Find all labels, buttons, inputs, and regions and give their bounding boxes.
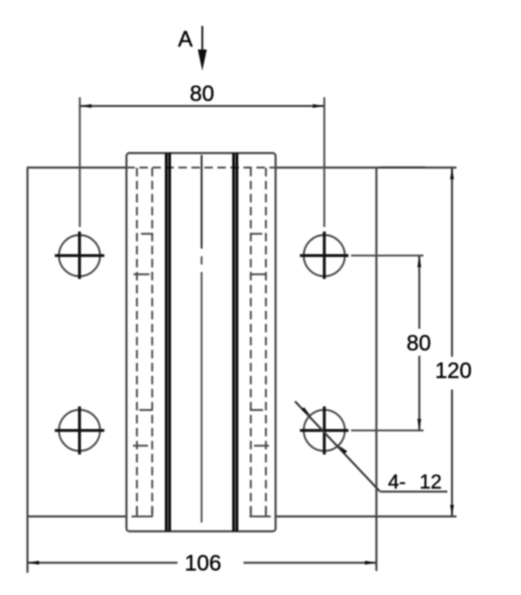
hidden bottom feet left — [132, 515, 153, 517]
dimension 120: arrowheads — [450, 168, 454, 517]
hole bottom-left circle — [59, 410, 100, 451]
dimension 80 top: arrowheads — [80, 104, 324, 108]
dimension 80 right: extension lines — [351, 256, 424, 431]
dimension 80 top: extension lines — [80, 97, 324, 227]
dimension 120: dimension line — [451, 168, 453, 517]
rail center line (dash-dot) — [201, 256, 203, 522]
leader 4-d12: arrowheads — [301, 407, 347, 454]
hidden plate top edge through rail — [126, 167, 276, 169]
hole bottom-left crosshair — [55, 406, 105, 454]
plate left edge + 106 extension — [26, 168, 28, 573]
svg-text:80: 80 — [407, 330, 431, 355]
svg-text:106: 106 — [185, 551, 222, 576]
dimension 106: dimension line — [28, 562, 377, 564]
rail hidden slot right dashed line 2 — [265, 168, 267, 516]
hole bottom-right circle — [304, 410, 345, 451]
hole bottom-right crosshair — [300, 406, 349, 454]
section arrow A — [198, 26, 207, 71]
rail center line upper segment (section cut) — [201, 155, 203, 249]
plate top edge right segment + 120 extension — [276, 167, 457, 169]
hole top-right circle — [304, 235, 345, 276]
dimension 106: arrowheads — [28, 561, 377, 565]
rail hidden slot left dashed line 1 — [136, 168, 138, 516]
rail hidden slot left dashed line 2 — [151, 168, 153, 516]
svg-text:80: 80 — [190, 81, 214, 106]
rail hidden slot right dashed line 1 — [250, 168, 252, 516]
rail thick rib line left pair — [166, 153, 169, 531]
rail block outline — [126, 153, 275, 531]
plate bottom edge right segment + 120 extension — [276, 515, 457, 517]
svg-text:12: 12 — [420, 471, 442, 493]
dimension 80 top: dimension line — [80, 105, 324, 107]
rail thick rib line right pair — [234, 153, 237, 531]
dimension 120 top extension overdraw — [380, 166, 426, 168]
leader 4-d12: diagonal line — [295, 401, 380, 491]
dimension 80 right: dimension line — [418, 256, 420, 431]
plate right edge + 106 extension — [375, 168, 377, 571]
hole top-left crosshair — [55, 232, 105, 280]
rail slot tick marks — [132, 234, 271, 517]
svg-text:120: 120 — [435, 358, 472, 383]
dimension 80 right: arrowheads — [417, 256, 421, 431]
plate bottom edge left segment — [27, 515, 127, 517]
svg-text:A: A — [178, 27, 193, 52]
leader 4-d12: underline — [380, 491, 448, 493]
hole top-left circle — [59, 235, 100, 276]
plate top edge left segment — [27, 167, 127, 169]
plate outline — [27, 168, 457, 573]
svg-text:4-: 4- — [388, 471, 406, 493]
hole top-right crosshair — [300, 232, 349, 280]
hidden bottom feet right — [250, 515, 271, 517]
